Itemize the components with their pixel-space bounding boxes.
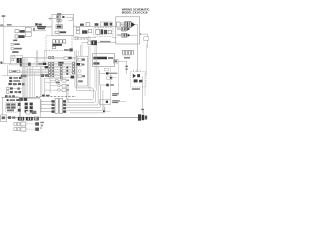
connector CN3 pin stripes [122, 34, 125, 37]
connector dark at panel corner [69, 48, 72, 51]
wire: bus y64.9 [9, 64, 76, 66]
wire: harness loop 1 [66, 50, 93, 99]
bottom row 1 leader [26, 123, 34, 125]
label row under monitor [106, 73, 117, 74]
fuse F3 [56, 40, 59, 43]
connector CN4 comb line [122, 50, 134, 52]
lamp L3 [58, 84, 61, 87]
wire: branch y30.8 [34, 30, 46, 32]
wire: stub into CN1 c [120, 25, 124, 27]
component row y110.8 right [26, 111, 30, 114]
bottom row 2 arrow mark [35, 128, 39, 131]
connector J1 below bus [15, 30, 19, 33]
terminal block bottom right a [138, 114, 141, 120]
wire: bus y78.6 [44, 78, 66, 80]
wire: loop right of diode [66, 17, 73, 20]
key switch box left edge [1, 115, 7, 122]
connector J11 [62, 89, 66, 92]
box: relay bank top left [11, 55, 23, 64]
wire: vertical x90 upper [89, 36, 91, 40]
connector CN4 comb teeth [123, 51, 134, 55]
wire: vertical x95 upper [94, 45, 96, 88]
wire: row stub y88.4 [20, 87, 23, 89]
pump motor M1 terminal [110, 23, 112, 26]
wire: tick east of dot [105, 110, 111, 112]
wire: stub into CN3 b [117, 35, 122, 37]
wire: row stub y78 [15, 77, 22, 79]
connector J8 [78, 75, 81, 78]
wire: bus y58.9 [34, 58, 76, 60]
wire: stub into CN1 a [120, 22, 124, 24]
box: diode pack dashed [130, 72, 146, 87]
label under CN4 [124, 57, 130, 59]
wire: gauge box feeder left corner a [67, 86, 69, 100]
relay K5 label [38, 63, 42, 65]
connector CN2 pin stripes [121, 28, 124, 31]
fuse F6 [52, 46, 56, 49]
wire: S3 to vertical [118, 60, 127, 62]
connector J3 [55, 31, 59, 33]
lamp L2 [55, 79, 58, 82]
ignition switch S4 slit [92, 41, 95, 44]
wire: left bus vertical 6 [28, 66, 30, 97]
wire: switch to right [97, 42, 116, 44]
wire: branch row y82.6 [45, 82, 60, 84]
relay bank small box [12, 56, 15, 59]
wire: left bus vertical 7 [30, 66, 32, 97]
diode D1 arrow [62, 16, 65, 19]
fuse F1 inline [33, 28, 34, 31]
wire: pump loop above bus [101, 22, 113, 26]
connector CN3 wedge [128, 34, 131, 37]
wire: J3 down to fuse panel [58, 34, 60, 36]
dashed boundary y96.3 [36, 95, 76, 97]
splice dot bottom [103, 110, 105, 112]
diode D2 [133, 74, 136, 78]
label above switch wire [100, 41, 110, 42]
box: fuse panel dashed [46, 36, 72, 51]
label rows right mid 1 [112, 93, 119, 94]
inline connector column 1 [49, 56, 51, 76]
wire: vertical x126.6 [126, 61, 128, 74]
relay K5 on bus [43, 63, 47, 65]
wire: vertical x90 lower [89, 46, 91, 91]
lamp L4 [58, 89, 61, 92]
wire: left bus vertical 8 [31, 66, 33, 97]
relay K2 contacts [18, 35, 24, 38]
wire: row stub y84.2 [17, 83, 22, 85]
wire: harness loop 2 [66, 50, 95, 102]
wire: right bus x142.6 [142, 76, 144, 113]
wire: bus y72.6 [9, 72, 76, 74]
wire: regulator down [58, 29, 60, 31]
wire: sub box bottom y85 [100, 84, 107, 86]
label above bus x35 [35, 23, 38, 25]
wire: harness loop 4 [66, 85, 100, 108]
boundary marks [42, 95, 45, 97]
wire: bus y67.8 [44, 67, 76, 69]
label row left y47.5 [11, 48, 14, 50]
terminal cluster on rail C [34, 117, 39, 121]
connector CN2 body [122, 27, 127, 31]
wire: left bus vertical 3 [24, 58, 26, 98]
connector J2 below bus [15, 35, 18, 38]
key switch inner mark [2, 116, 6, 119]
wire: down from brushes [57, 22, 59, 25]
diode D5 [139, 80, 142, 83]
gauge G2 [78, 63, 81, 66]
component row y70.2 box2 [17, 70, 20, 72]
wire: terminal strip rail y37.6 [74, 37, 96, 39]
relay box R5 right of corners [100, 100, 111, 105]
fuse F4 [59, 40, 62, 43]
label above bus x38.5 [38, 24, 41, 26]
brush bar 2 [60, 19, 62, 22]
dark connector x70 y75 [71, 76, 74, 79]
label rows right mid 2 [112, 100, 120, 101]
wire: vertical x88.6 lower [88, 46, 90, 88]
splice marks on left verticals [18, 103, 21, 106]
terminal block bottom right c [145, 116, 147, 120]
wire: main top bus y26.4 left segment [0, 25, 52, 27]
wire: bottom long rail y117.6 [7, 117, 138, 119]
wire: harness loop 5 [66, 90, 103, 110]
terminal cluster on rail B [26, 117, 33, 121]
wire: bus y57.5 [22, 57, 76, 59]
terminal block bottom right b [142, 115, 145, 120]
component cluster x58 y62 [58, 62, 63, 64]
bulkhead pins left [52, 100, 55, 102]
terminal cluster on rail A [18, 117, 24, 121]
wire: vertical x118.6 [118, 63, 120, 94]
splice tick 2 [125, 68, 128, 71]
bulkhead connector body B [59, 99, 62, 114]
starter column B cells [30, 103, 33, 106]
wire: R5 stub down [103, 105, 105, 111]
node label left of bus [0, 25, 3, 26]
connector CN1 wedge [131, 22, 135, 27]
bottom row 1 relay [21, 122, 26, 126]
wire: vertical x88.6 upper [88, 36, 90, 41]
wire: stub into CN3 a [117, 33, 122, 35]
wire: vertical x46.2 from fuse panel [45, 50, 47, 57]
bulkhead connector body A [55, 99, 58, 114]
buzzer BZ1 box [107, 76, 112, 80]
regulator U1 text [57, 26, 62, 28]
relay K2 body [25, 32, 31, 36]
battery row 2 [6, 106, 10, 108]
label row left y51 [12, 51, 18, 53]
label above connector inside box [57, 13, 61, 14]
box: monitor panel [92, 54, 114, 67]
connector P1 pins [56, 16, 59, 18]
wire: far right drop [145, 44, 147, 76]
wire: vertical x78.6 [78, 50, 80, 56]
wire: dashed leader to box [47, 27, 53, 29]
wire: into relay bank y63.8 [1, 63, 11, 65]
switch S3 box right mid [113, 60, 118, 63]
label row left y43 [11, 43, 14, 45]
component row y79.8 [9, 80, 12, 82]
box: relay module rounded dashed [94, 28, 114, 37]
connector CN4 lower rail [123, 54, 131, 56]
connector J6 [88, 29, 91, 32]
inline connector column 5 [73, 62, 75, 73]
battery row 1 [6, 103, 10, 105]
component row y76.7 [9, 77, 12, 79]
monitor small box [104, 68, 108, 71]
wire: vertical x80.4 [79, 45, 81, 56]
connector J10 [62, 84, 66, 87]
wire: sub box top y73.4 [100, 72, 106, 74]
wire: branch vertical x44.8 [44, 78, 46, 96]
wire: CN1 to right edge [135, 25, 137, 44]
ignition switch S4 housing [88, 41, 91, 45]
connector marks right of J11 [67, 89, 69, 90]
label x94.6 [95, 23, 99, 26]
brush bar 1 [57, 19, 59, 22]
connector J4 below bus [76, 27, 80, 30]
svg-text:MODEL CX16 CX18: MODEL CX16 CX18 [122, 11, 148, 15]
label under diode pack [132, 88, 140, 90]
label: alternator name row2 [38, 28, 45, 29]
relay K6 on bus [45, 66, 48, 68]
lamp L1 [78, 70, 81, 73]
wire: long vertical x110.6 [110, 66, 112, 99]
label B at far left [0, 62, 2, 64]
wire: left bus vertical 2 [23, 58, 25, 98]
wire: left bus vertical 9 [33, 73, 35, 98]
regulator U1 box [56, 25, 63, 29]
connector housing small box [117, 22, 121, 27]
wire: bus y71.1 [9, 70, 76, 72]
component row y116.2 [8, 116, 11, 119]
node tick x140.5 [140, 33, 142, 35]
sensor on bus y57 box [64, 57, 68, 60]
marks at branch top [41, 74, 44, 77]
wire: branch row y80.6 [50, 80, 62, 82]
gauge G1 [78, 58, 81, 61]
battery label row [7, 99, 9, 101]
relay K3 body [96, 29, 100, 34]
component row y82.8 [8, 83, 11, 85]
bottom row 1 arrow mark [35, 122, 39, 125]
label row left y39.5 [13, 40, 17, 42]
wire: to far right component [141, 34, 148, 48]
connector J7 small [74, 36, 78, 39]
wire: bus y75.7 [2, 75, 60, 77]
component row y90.7 [6, 91, 9, 94]
relay K4 terminal [108, 30, 111, 34]
mark on row y82.6 [56, 82, 60, 84]
switch S2 contacts [82, 30, 87, 33]
fuse cluster above rail [19, 98, 23, 101]
label: alternator name row1 [37, 26, 46, 28]
node label top-left [2, 15, 6, 16]
wire: stub into CN2 a [117, 27, 122, 29]
inline connector column 3 [60, 62, 62, 79]
relay K1 body [25, 28, 31, 32]
relay K4 pins [104, 30, 107, 34]
wire: leader from label 2 [120, 101, 126, 103]
wire: left rail y100.4 [2, 96, 41, 98]
wire: row stub y92 [16, 91, 22, 93]
connector P1 hatched [57, 16, 61, 19]
wire: bulkhead left leads [41, 101, 52, 111]
wire: right edge drop x137.3 [136, 44, 138, 72]
box: gauge cluster tall [77, 56, 88, 86]
wire: stub outside left y37.8 [112, 37, 116, 39]
wire: stub into CN1 b [120, 24, 124, 26]
relay R5 dot [106, 101, 108, 103]
box: main harness connector top right [116, 17, 140, 44]
gauge cluster lower mark [78, 80, 83, 82]
dark connector right end of bus [77, 63, 80, 66]
wire: branch row y85.6 [50, 85, 62, 87]
relay bank cell A [17, 58, 19, 63]
gauge G2 label [82, 64, 85, 66]
wire: bus y66.3 [20, 65, 76, 67]
diode D3 [137, 74, 140, 77]
wire: bus y63.4 [20, 62, 76, 64]
gauge G1 label [82, 59, 85, 61]
wire: bus y69.6 [27, 69, 76, 71]
connector CN1 hatched body [125, 22, 132, 28]
wire: switch to left [82, 42, 88, 44]
wire: vertical pair x37.8 [37, 50, 39, 66]
component cluster x58 y64 [58, 64, 62, 66]
wire: row stub y81 [16, 80, 22, 82]
component row y70.2 marks [12, 70, 16, 72]
sensor S6 label [110, 84, 114, 86]
wire: diode pack top leads [134, 69, 140, 71]
monitor text row dark [93, 57, 107, 60]
inline connector column 2 [52, 56, 54, 76]
terminal strip teeth [76, 38, 88, 40]
relay K1 contacts [20, 30, 25, 33]
relay bank cell B [19, 58, 21, 63]
bottom row 1 squares [14, 122, 17, 125]
connector CN3 body [122, 33, 127, 37]
ignition switch S4 body dark [91, 40, 97, 45]
wire: left edge drop x2.7 [2, 97, 4, 115]
wire: harness loop 3 [66, 66, 98, 105]
splice tick on x142.6 [141, 109, 144, 110]
wire: left verticals to bottom rail [18, 97, 20, 117]
monitor lower marks [93, 62, 99, 64]
wire: vertical drop at x3.8 top left [3, 17, 5, 64]
label above bus x80 [80, 24, 84, 26]
connector J9 [62, 79, 66, 82]
buzzer BZ1 dot [110, 77, 112, 79]
box: alternator group dashed outline [52, 14, 74, 35]
wire: sub box left edge x99.6 [99, 70, 101, 85]
wire: vertical pair x36.6 [36, 50, 38, 66]
splice block x28 [28, 63, 31, 66]
connector CN2 wedge [127, 27, 130, 30]
component row y95.1 [5, 95, 8, 98]
connector J5 [76, 31, 80, 34]
wire: vertical pair x41.9 [41, 66, 43, 96]
wire: bulkhead bracket [40, 100, 42, 113]
fuse F2 [52, 40, 55, 43]
fuse F5 [63, 40, 66, 43]
node tick at x50 [49, 18, 51, 20]
wire: bus y74.1 [27, 73, 76, 75]
wire: left bus vertical 5 [26, 58, 28, 98]
wire: harness loop 6 [70, 107, 105, 113]
component row y87.1 [6, 87, 9, 90]
monitor text row light [108, 57, 113, 59]
wire: CN3 out [130, 34, 137, 36]
ground label bottom [40, 122, 44, 124]
splice tick 1 [125, 66, 128, 67]
label right in fuse panel [64, 49, 69, 51]
wire: bus y77.2 [48, 76, 76, 78]
relay K3 pins [101, 29, 104, 34]
diode D4 row [134, 79, 138, 82]
wire: branch vertical x50.1 [49, 78, 51, 93]
wire: vertical x82 [81, 43, 83, 57]
component row y70.2 box1 [9, 70, 11, 72]
ground tick [40, 127, 42, 129]
bottom row 2 leader [26, 128, 34, 130]
wire: stub into CN2 b [117, 29, 122, 31]
wire: gauge box feeder left corner b [68, 86, 70, 102]
marks right of sensor [69, 57, 72, 59]
wire: drop x7.6 [7, 65, 9, 76]
sensor S6 [106, 84, 109, 87]
wire: panel bottom stub left [45, 49, 47, 51]
bottom row 2 squares [14, 128, 17, 131]
splice block left end y63 [20, 63, 22, 67]
wire: right bus x145 [144, 72, 146, 96]
ground symbol mark [41, 125, 43, 127]
wire: branch row y90.1 [45, 89, 62, 91]
switch S3 mark [114, 60, 117, 62]
bottom row 2 relay [21, 127, 26, 131]
wire: corner from fuse cluster [27, 99, 40, 118]
label right of J3 [60, 31, 66, 33]
bulkhead pins right [63, 100, 66, 102]
sensor S1 on bus [86, 23, 90, 27]
wire: buzzer stub [112, 77, 116, 79]
wire: left bus vertical 1 [21, 58, 23, 98]
connector CN1 pin stripes [125, 22, 128, 27]
wire label on top bus [7, 24, 12, 25]
splice marks y74.8 left [21, 75, 27, 78]
wire: drop to terminal [143, 110, 145, 115]
battery row 3 [7, 109, 14, 111]
inline connector column 4 [66, 67, 68, 75]
wire: vertical x44.8 from fuse panel [44, 50, 46, 62]
resistor R1 far right [144, 37, 149, 41]
wire: vertical pair x40.6 [40, 66, 42, 96]
gauge cluster marks [82, 75, 85, 77]
wire: main top bus y26.4 right segment [74, 25, 116, 27]
relay bank lower box [11, 58, 14, 60]
pump motor M1 [104, 23, 108, 26]
connector marks right of J9 [67, 80, 69, 81]
wire: left bus vertical 4 [25, 58, 27, 98]
box: battery dashed [6, 103, 18, 113]
wire: bus y61.9 [34, 61, 76, 63]
connector marks right of J10 [67, 85, 69, 86]
sensor S5 blob [106, 72, 108, 74]
label: fuse ratings row [52, 44, 62, 46]
starter column A cells [25, 103, 28, 106]
wire: vertical x96.4 upper [95, 45, 97, 91]
